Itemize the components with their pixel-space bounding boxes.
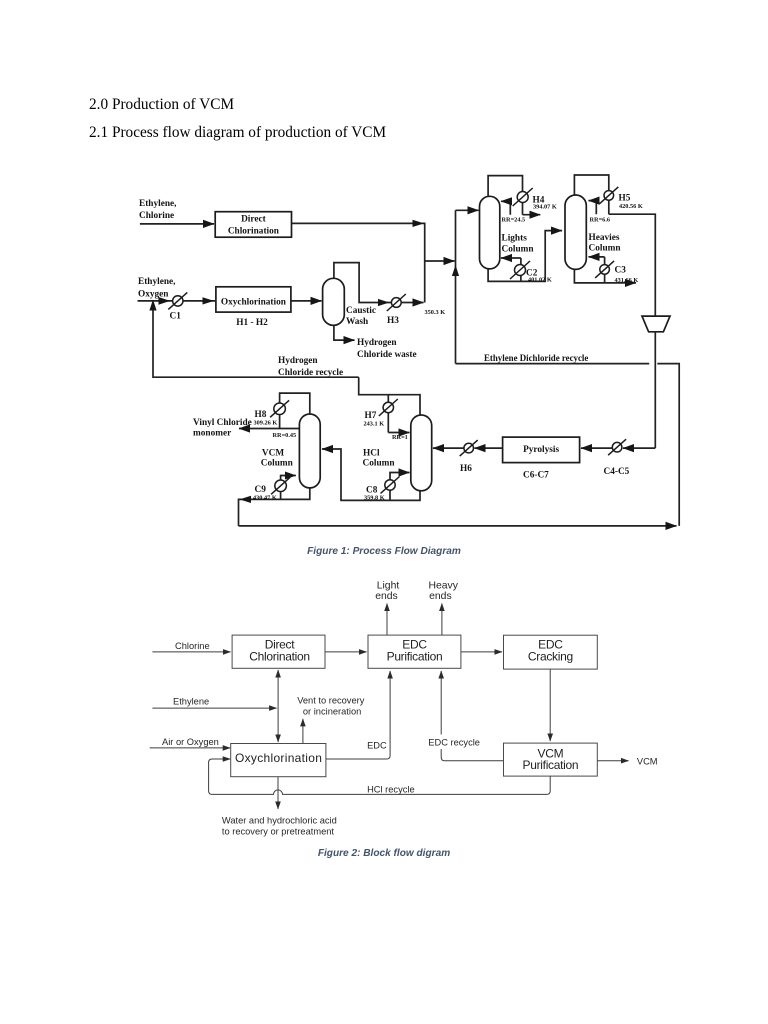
svg-text:Purification: Purification [523, 758, 579, 772]
svg-text:Air or Oxygen: Air or Oxygen [162, 737, 219, 747]
svg-text:HCl recycle: HCl recycle [367, 785, 415, 795]
svg-text:or incineration: or incineration [303, 707, 361, 717]
svg-text:Oxychlorination: Oxychlorination [235, 751, 322, 765]
svg-text:Heavy: Heavy [428, 580, 458, 591]
svg-text:EDC recycle: EDC recycle [428, 738, 480, 748]
svg-text:EDC: EDC [367, 740, 387, 750]
svg-text:Vent to recovery: Vent to recovery [297, 696, 365, 706]
svg-text:ends: ends [375, 591, 398, 602]
svg-text:Chlorination: Chlorination [249, 650, 309, 664]
svg-text:to recovery or pretreatment: to recovery or pretreatment [222, 827, 335, 837]
svg-text:Cracking: Cracking [528, 650, 573, 664]
svg-text:Light: Light [377, 580, 400, 591]
svg-text:Ethylene: Ethylene [173, 697, 209, 707]
svg-text:Chlorine: Chlorine [175, 641, 210, 651]
svg-text:Purification: Purification [387, 650, 443, 664]
svg-text:VCM: VCM [637, 757, 658, 767]
svg-text:ends: ends [429, 591, 452, 602]
svg-text:Water and hydrochloric acid: Water and hydrochloric acid [222, 816, 337, 826]
